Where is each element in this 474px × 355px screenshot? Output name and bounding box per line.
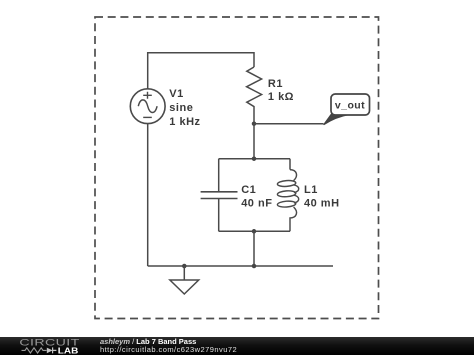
- footer bar: [0, 337, 474, 355]
- node D (ground stub junction): [182, 264, 187, 269]
- svg-text:1 kΩ: 1 kΩ: [268, 91, 294, 103]
- svg-text:sine: sine: [169, 102, 193, 114]
- wire V1 top to R1 top: [148, 53, 254, 89]
- node B (tank top junction): [252, 156, 257, 161]
- svg-text:C1: C1: [241, 184, 256, 196]
- inductor L1: [277, 159, 339, 232]
- CircuitLab logo: [19, 337, 79, 355]
- schematic boundary (dashed frame): [95, 17, 379, 319]
- svg-text:40 mH: 40 mH: [304, 198, 340, 210]
- svg-text:1 kHz: 1 kHz: [169, 116, 200, 128]
- voltage source V1: [130, 88, 200, 128]
- capacitor C1: [201, 159, 273, 232]
- wire node A down to tank top rail: [253, 124, 255, 159]
- node A (R1 / v_out / tank junction): [252, 121, 257, 126]
- svg-text:V1: V1: [169, 88, 183, 100]
- resistor R1: [247, 67, 294, 124]
- ground: [170, 266, 199, 294]
- node C (tank bottom junction): [252, 229, 257, 234]
- wire tank bottom to ground rail: [253, 231, 255, 266]
- node E (tank return junction): [252, 264, 257, 269]
- svg-text:40 nF: 40 nF: [241, 198, 272, 210]
- wire ground rail: [148, 265, 333, 267]
- svg-text:R1: R1: [268, 78, 283, 90]
- wire node A to v_out tap: [254, 123, 324, 125]
- wire V1 bottom to ground rail: [147, 124, 149, 266]
- svg-text:LAB: LAB: [58, 346, 79, 355]
- net flag v_out: [324, 94, 370, 124]
- wire tank bottom rail: [219, 230, 290, 232]
- svg-text:L1: L1: [304, 184, 318, 196]
- svg-text:v_out: v_out: [335, 99, 365, 111]
- wire tank top rail: [219, 158, 290, 160]
